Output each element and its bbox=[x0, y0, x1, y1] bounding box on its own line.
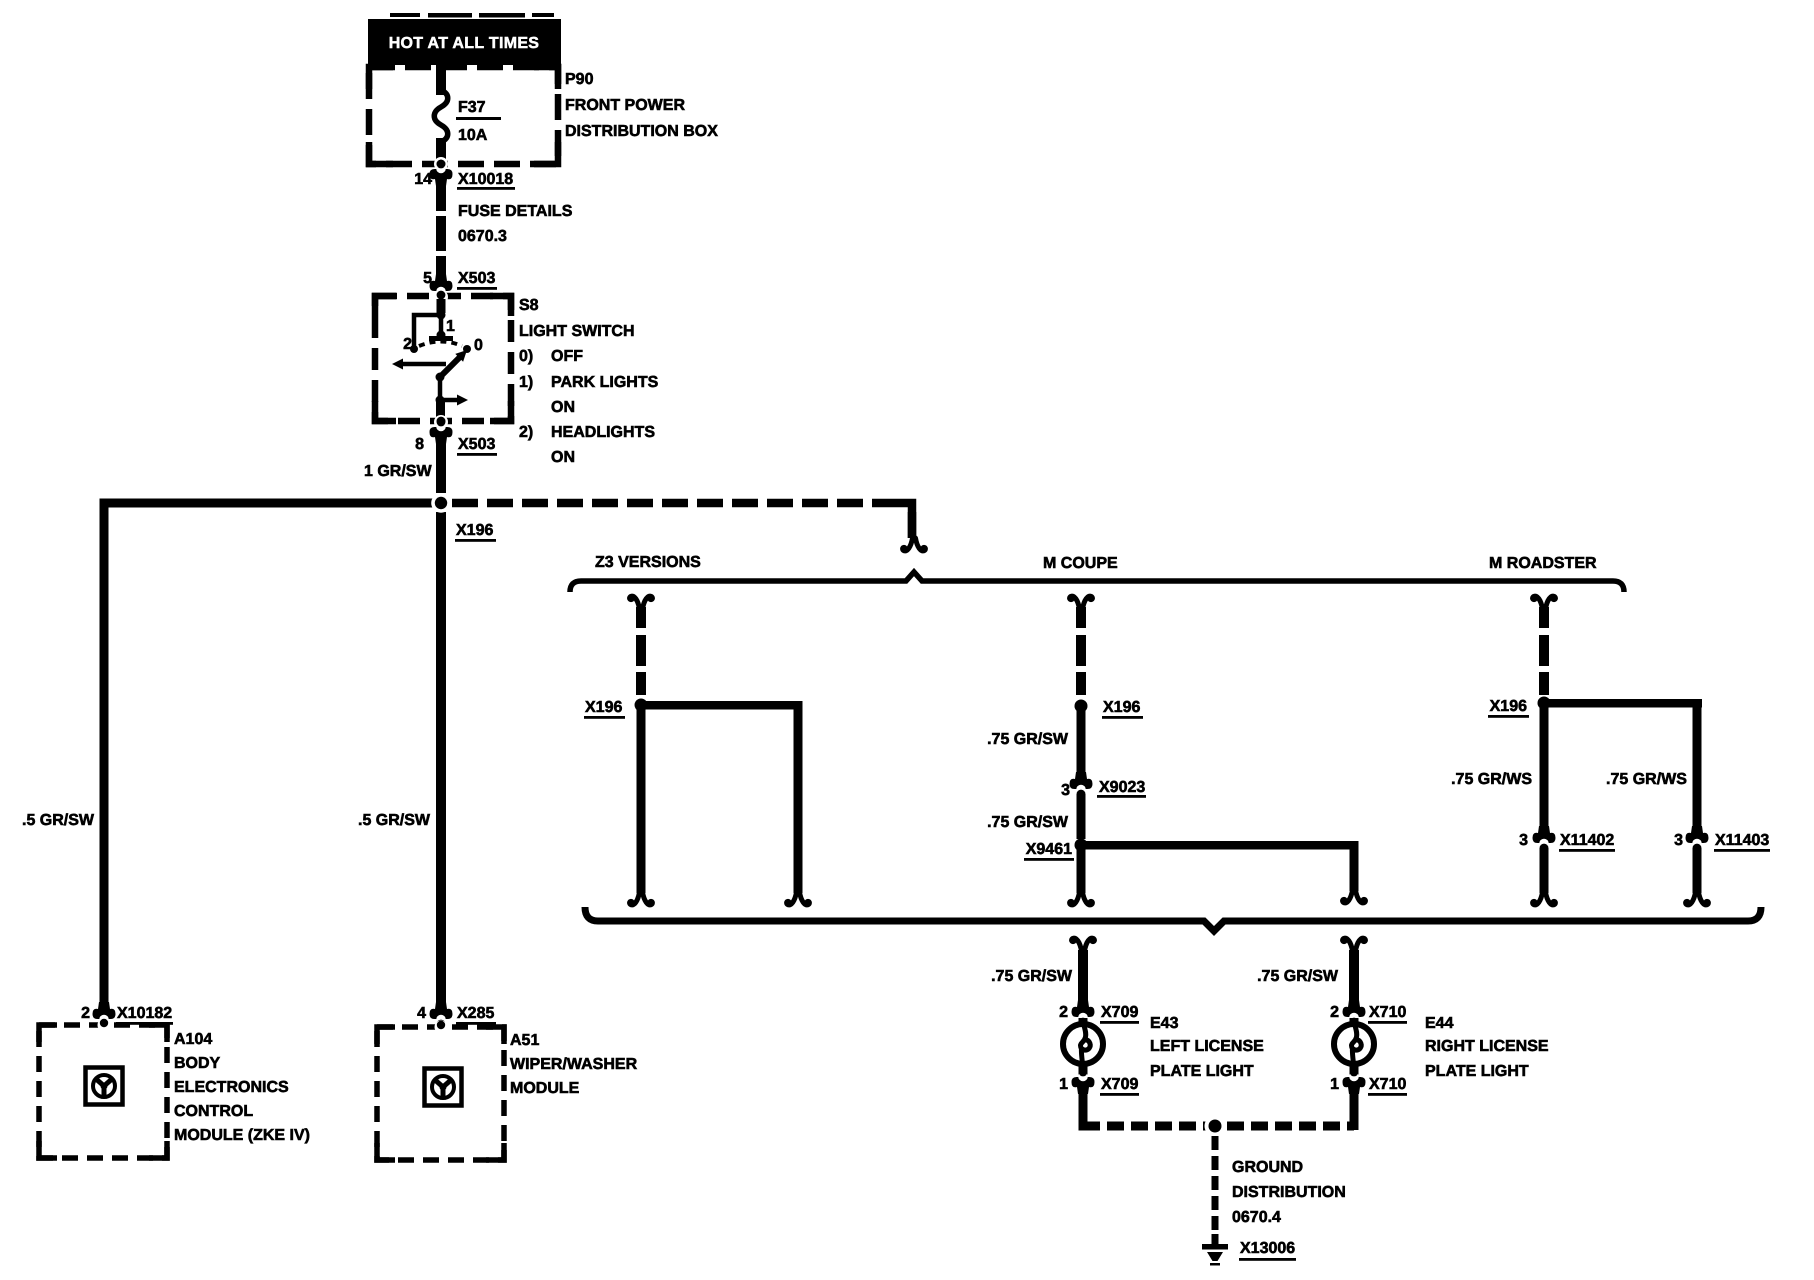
svg-text:5: 5 bbox=[423, 270, 432, 287]
label FUSE DETAILS 0670.3 bbox=[458, 203, 573, 245]
M ROADSTER dashed wire bbox=[1539, 607, 1549, 695]
svg-text:10A: 10A bbox=[458, 127, 488, 144]
light switch S8 dashed outline bbox=[375, 296, 511, 421]
svg-text:E44: E44 bbox=[1425, 1015, 1454, 1032]
svg-text:X710: X710 bbox=[1369, 1076, 1406, 1093]
M ROADSTER right leg wire bbox=[1693, 699, 1702, 835]
svg-text:X710: X710 bbox=[1369, 1004, 1406, 1021]
ground bus dashed wire bbox=[1079, 1122, 1355, 1131]
M COUPE left leg bottom connector bbox=[1070, 892, 1093, 905]
svg-text:X196: X196 bbox=[1103, 699, 1140, 716]
svg-text:X11402: X11402 bbox=[1560, 832, 1614, 849]
svg-text:GROUND: GROUND bbox=[1232, 1159, 1303, 1176]
svg-text:.5 GR/SW: .5 GR/SW bbox=[358, 812, 431, 829]
module A51 dashed outline bbox=[377, 1027, 504, 1160]
wire switch to junction X196 bbox=[436, 440, 446, 493]
svg-text:A104: A104 bbox=[174, 1031, 212, 1048]
svg-text:X709: X709 bbox=[1101, 1004, 1138, 1021]
svg-text:DISTRIBUTION BOX: DISTRIBUTION BOX bbox=[565, 123, 718, 140]
lamp E44 bbox=[1334, 1018, 1374, 1076]
connector X285 pin 4 bbox=[417, 1002, 496, 1028]
svg-text:X285: X285 bbox=[457, 1005, 494, 1022]
M ROADSTER horizontal wire bbox=[1544, 699, 1702, 708]
label P90 FRONT POWER DISTRIBUTION BOX bbox=[565, 71, 718, 140]
svg-text:S8: S8 bbox=[519, 297, 539, 314]
label A51 WIPER/WASHER MODULE bbox=[510, 1032, 638, 1097]
dashed wire to ground bbox=[1212, 1136, 1219, 1240]
svg-text:.75 GR/SW: .75 GR/SW bbox=[987, 731, 1069, 748]
svg-text:2): 2) bbox=[519, 424, 533, 441]
svg-text:X709: X709 bbox=[1101, 1076, 1138, 1093]
svg-text:8: 8 bbox=[415, 436, 424, 453]
wire E43 to ground bus bbox=[1079, 1089, 1088, 1130]
svg-text:HOT AT ALL TIMES: HOT AT ALL TIMES bbox=[389, 35, 540, 52]
wire from hot feed into fuse bbox=[436, 65, 446, 95]
label E43 LEFT LICENSE PLATE LIGHT bbox=[1150, 1015, 1264, 1080]
svg-text:.75 GR/WS: .75 GR/WS bbox=[1451, 771, 1532, 788]
svg-text:CONTROL: CONTROL bbox=[174, 1103, 253, 1120]
svg-text:.75 GR/WS: .75 GR/WS bbox=[1606, 771, 1687, 788]
svg-text:A51: A51 bbox=[510, 1032, 539, 1049]
M COUPE left leg wire bbox=[1077, 845, 1086, 893]
wire X9023 to X9461 bbox=[1077, 794, 1086, 839]
svg-text:2: 2 bbox=[81, 1005, 90, 1022]
M COUPE horizontal wire to second leg bbox=[1081, 841, 1354, 850]
wire left branch down to A104 bbox=[100, 499, 109, 1004]
E43 feed top connector bbox=[1072, 938, 1095, 951]
wire junction down to A51 bbox=[436, 512, 446, 1004]
connector X503 pin 5 bbox=[423, 270, 497, 300]
Z3 right leg wire bbox=[794, 701, 803, 893]
top version bracket bbox=[570, 572, 1624, 592]
svg-text:3: 3 bbox=[1061, 782, 1070, 799]
module icon A104 bbox=[86, 1068, 123, 1105]
svg-text:X503: X503 bbox=[458, 436, 495, 453]
connector X11402 pin 3 bbox=[1519, 826, 1615, 852]
svg-text:X10018: X10018 bbox=[458, 171, 513, 188]
svg-text:P90: P90 bbox=[565, 71, 594, 88]
node X9461 bbox=[1024, 839, 1088, 861]
M ROADSTER right leg bottom connector bbox=[1686, 892, 1709, 905]
Z3 right leg bottom connector bbox=[787, 892, 810, 905]
svg-text:X9461: X9461 bbox=[1026, 841, 1072, 858]
svg-text:PLATE LIGHT: PLATE LIGHT bbox=[1425, 1063, 1529, 1080]
svg-text:LIGHT SWITCH: LIGHT SWITCH bbox=[519, 323, 635, 340]
svg-text:0: 0 bbox=[474, 337, 483, 354]
module icon A51 bbox=[425, 1069, 462, 1106]
connector X709 pin 2 bbox=[1059, 1000, 1139, 1026]
Z3 branch dashed wire bbox=[636, 607, 646, 695]
fuse box P90 dashed outline bbox=[369, 67, 558, 164]
fuse F37 10A bbox=[434, 90, 501, 144]
svg-text:M ROADSTER: M ROADSTER bbox=[1489, 555, 1597, 572]
Z3 branch top connector bbox=[630, 596, 653, 609]
svg-text:BODY: BODY bbox=[174, 1055, 221, 1072]
svg-text:MODULE (ZKE IV): MODULE (ZKE IV) bbox=[174, 1127, 310, 1144]
svg-text:X9023: X9023 bbox=[1099, 779, 1145, 796]
Z3 branch horizontal wire bbox=[641, 701, 802, 710]
lamp E43 bbox=[1063, 1018, 1103, 1076]
wire X10018 to X503 bbox=[436, 179, 446, 282]
dashed wire X196 to version branches bbox=[452, 503, 912, 538]
M ROADSTER left leg wire bbox=[1540, 703, 1549, 835]
svg-text:X196: X196 bbox=[585, 699, 622, 716]
connector X11403 pin 3 bbox=[1674, 826, 1770, 852]
M ROADSTER right leg lower wire bbox=[1693, 848, 1702, 893]
wire junction to left branch bbox=[100, 499, 434, 508]
svg-text:DISTRIBUTION: DISTRIBUTION bbox=[1232, 1184, 1346, 1201]
svg-text:Z3 VERSIONS: Z3 VERSIONS bbox=[595, 554, 701, 571]
wire to E44 bbox=[1349, 950, 1359, 1009]
svg-text:X11403: X11403 bbox=[1715, 832, 1769, 849]
svg-text:E43: E43 bbox=[1150, 1015, 1179, 1032]
E44 feed top connector bbox=[1343, 938, 1366, 951]
connector X9023 pin 3 bbox=[1061, 772, 1146, 799]
svg-text:HEADLIGHTS: HEADLIGHTS bbox=[551, 424, 655, 441]
connector X710 pin 2 bbox=[1330, 1000, 1407, 1026]
bottom version bracket bbox=[585, 907, 1761, 931]
M ROADSTER top connector bbox=[1533, 596, 1556, 609]
label E44 RIGHT LICENSE PLATE LIGHT bbox=[1425, 1015, 1549, 1080]
svg-text:WIPER/WASHER: WIPER/WASHER bbox=[510, 1056, 638, 1073]
label S8 LIGHT SWITCH positions bbox=[519, 297, 659, 466]
Z3 left leg wire bbox=[637, 705, 646, 893]
svg-text:.75 GR/SW: .75 GR/SW bbox=[987, 814, 1069, 831]
svg-text:1): 1) bbox=[519, 374, 533, 391]
ground symbol X13006 bbox=[1202, 1234, 1296, 1266]
wire X196 to X9023 bbox=[1077, 706, 1086, 781]
svg-text:PLATE LIGHT: PLATE LIGHT bbox=[1150, 1063, 1254, 1080]
svg-text:X10182: X10182 bbox=[117, 1005, 172, 1022]
svg-text:X503: X503 bbox=[458, 270, 495, 287]
M ROADSTER left leg bottom connector bbox=[1533, 892, 1556, 905]
svg-text:2: 2 bbox=[1059, 1004, 1068, 1021]
svg-text:3: 3 bbox=[1519, 832, 1528, 849]
node X196 Z3 bbox=[584, 699, 648, 719]
label A104 BODY ELECTRONICS CONTROL MODULE bbox=[174, 1031, 310, 1144]
svg-text:X13006: X13006 bbox=[1240, 1240, 1295, 1257]
M COUPE top connector bbox=[1070, 596, 1093, 609]
M COUPE dashed wire bbox=[1076, 607, 1086, 695]
svg-text:14: 14 bbox=[414, 171, 432, 188]
connector X10182 pin 2 bbox=[81, 1002, 173, 1028]
svg-text:FUSE DETAILS: FUSE DETAILS bbox=[458, 203, 573, 220]
svg-text:1: 1 bbox=[446, 318, 455, 335]
svg-text:RIGHT LICENSE: RIGHT LICENSE bbox=[1425, 1038, 1549, 1055]
svg-text:PARK LIGHTS: PARK LIGHTS bbox=[551, 374, 659, 391]
svg-text:MODULE: MODULE bbox=[510, 1080, 580, 1097]
svg-text:1: 1 bbox=[1059, 1076, 1068, 1093]
connector X709 pin 1 bbox=[1059, 1068, 1139, 1096]
svg-text:2: 2 bbox=[1330, 1004, 1339, 1021]
svg-text:F37: F37 bbox=[458, 99, 486, 116]
node X196 M COUPE bbox=[1075, 699, 1144, 719]
arrow to version bracket bbox=[903, 538, 926, 551]
junction node X196 bbox=[431, 493, 496, 542]
power label HOT AT ALL TIMES bbox=[368, 13, 561, 65]
wire E44 to ground bus bbox=[1350, 1089, 1359, 1130]
svg-text:.75 GR/SW: .75 GR/SW bbox=[991, 968, 1073, 985]
svg-text:0): 0) bbox=[519, 348, 533, 365]
svg-text:2: 2 bbox=[403, 336, 412, 353]
M ROADSTER left leg lower wire bbox=[1540, 848, 1549, 893]
switch S8 internals bbox=[392, 299, 483, 420]
svg-text:1: 1 bbox=[1330, 1076, 1339, 1093]
node X196 M ROADSTER bbox=[1488, 697, 1551, 718]
svg-text:1 GR/SW: 1 GR/SW bbox=[364, 463, 432, 480]
svg-text:ELECTRONICS: ELECTRONICS bbox=[174, 1079, 289, 1096]
M COUPE right leg bottom connector bbox=[1343, 890, 1366, 903]
svg-text:4: 4 bbox=[417, 1005, 426, 1022]
svg-text:OFF: OFF bbox=[551, 348, 583, 365]
wire fuse to connector bbox=[436, 138, 446, 166]
M COUPE right leg wire bbox=[1350, 841, 1359, 891]
svg-text:X196: X196 bbox=[456, 522, 493, 539]
svg-text:0670.4: 0670.4 bbox=[1232, 1209, 1281, 1226]
svg-text:LEFT LICENSE: LEFT LICENSE bbox=[1150, 1038, 1264, 1055]
connector X10018 pin 14 bbox=[414, 157, 515, 190]
svg-text:ON: ON bbox=[551, 399, 575, 416]
svg-text:FRONT POWER: FRONT POWER bbox=[565, 97, 685, 114]
label GROUND DISTRIBUTION 0670.4 bbox=[1232, 1159, 1346, 1226]
svg-text:0670.3: 0670.3 bbox=[458, 228, 507, 245]
wire to E43 bbox=[1078, 950, 1088, 1009]
connector X710 pin 1 bbox=[1330, 1068, 1407, 1096]
module A104 dashed outline bbox=[39, 1025, 167, 1158]
svg-text:3: 3 bbox=[1674, 832, 1683, 849]
svg-text:.75 GR/SW: .75 GR/SW bbox=[1257, 968, 1339, 985]
Z3 left leg bottom connector bbox=[630, 892, 653, 905]
ground bus junction node bbox=[1205, 1116, 1226, 1137]
svg-text:X196: X196 bbox=[1490, 698, 1527, 715]
svg-text:ON: ON bbox=[551, 449, 575, 466]
svg-text:M COUPE: M COUPE bbox=[1043, 555, 1118, 572]
svg-text:.5 GR/SW: .5 GR/SW bbox=[22, 812, 95, 829]
connector X503 pin 8 bbox=[415, 415, 497, 456]
